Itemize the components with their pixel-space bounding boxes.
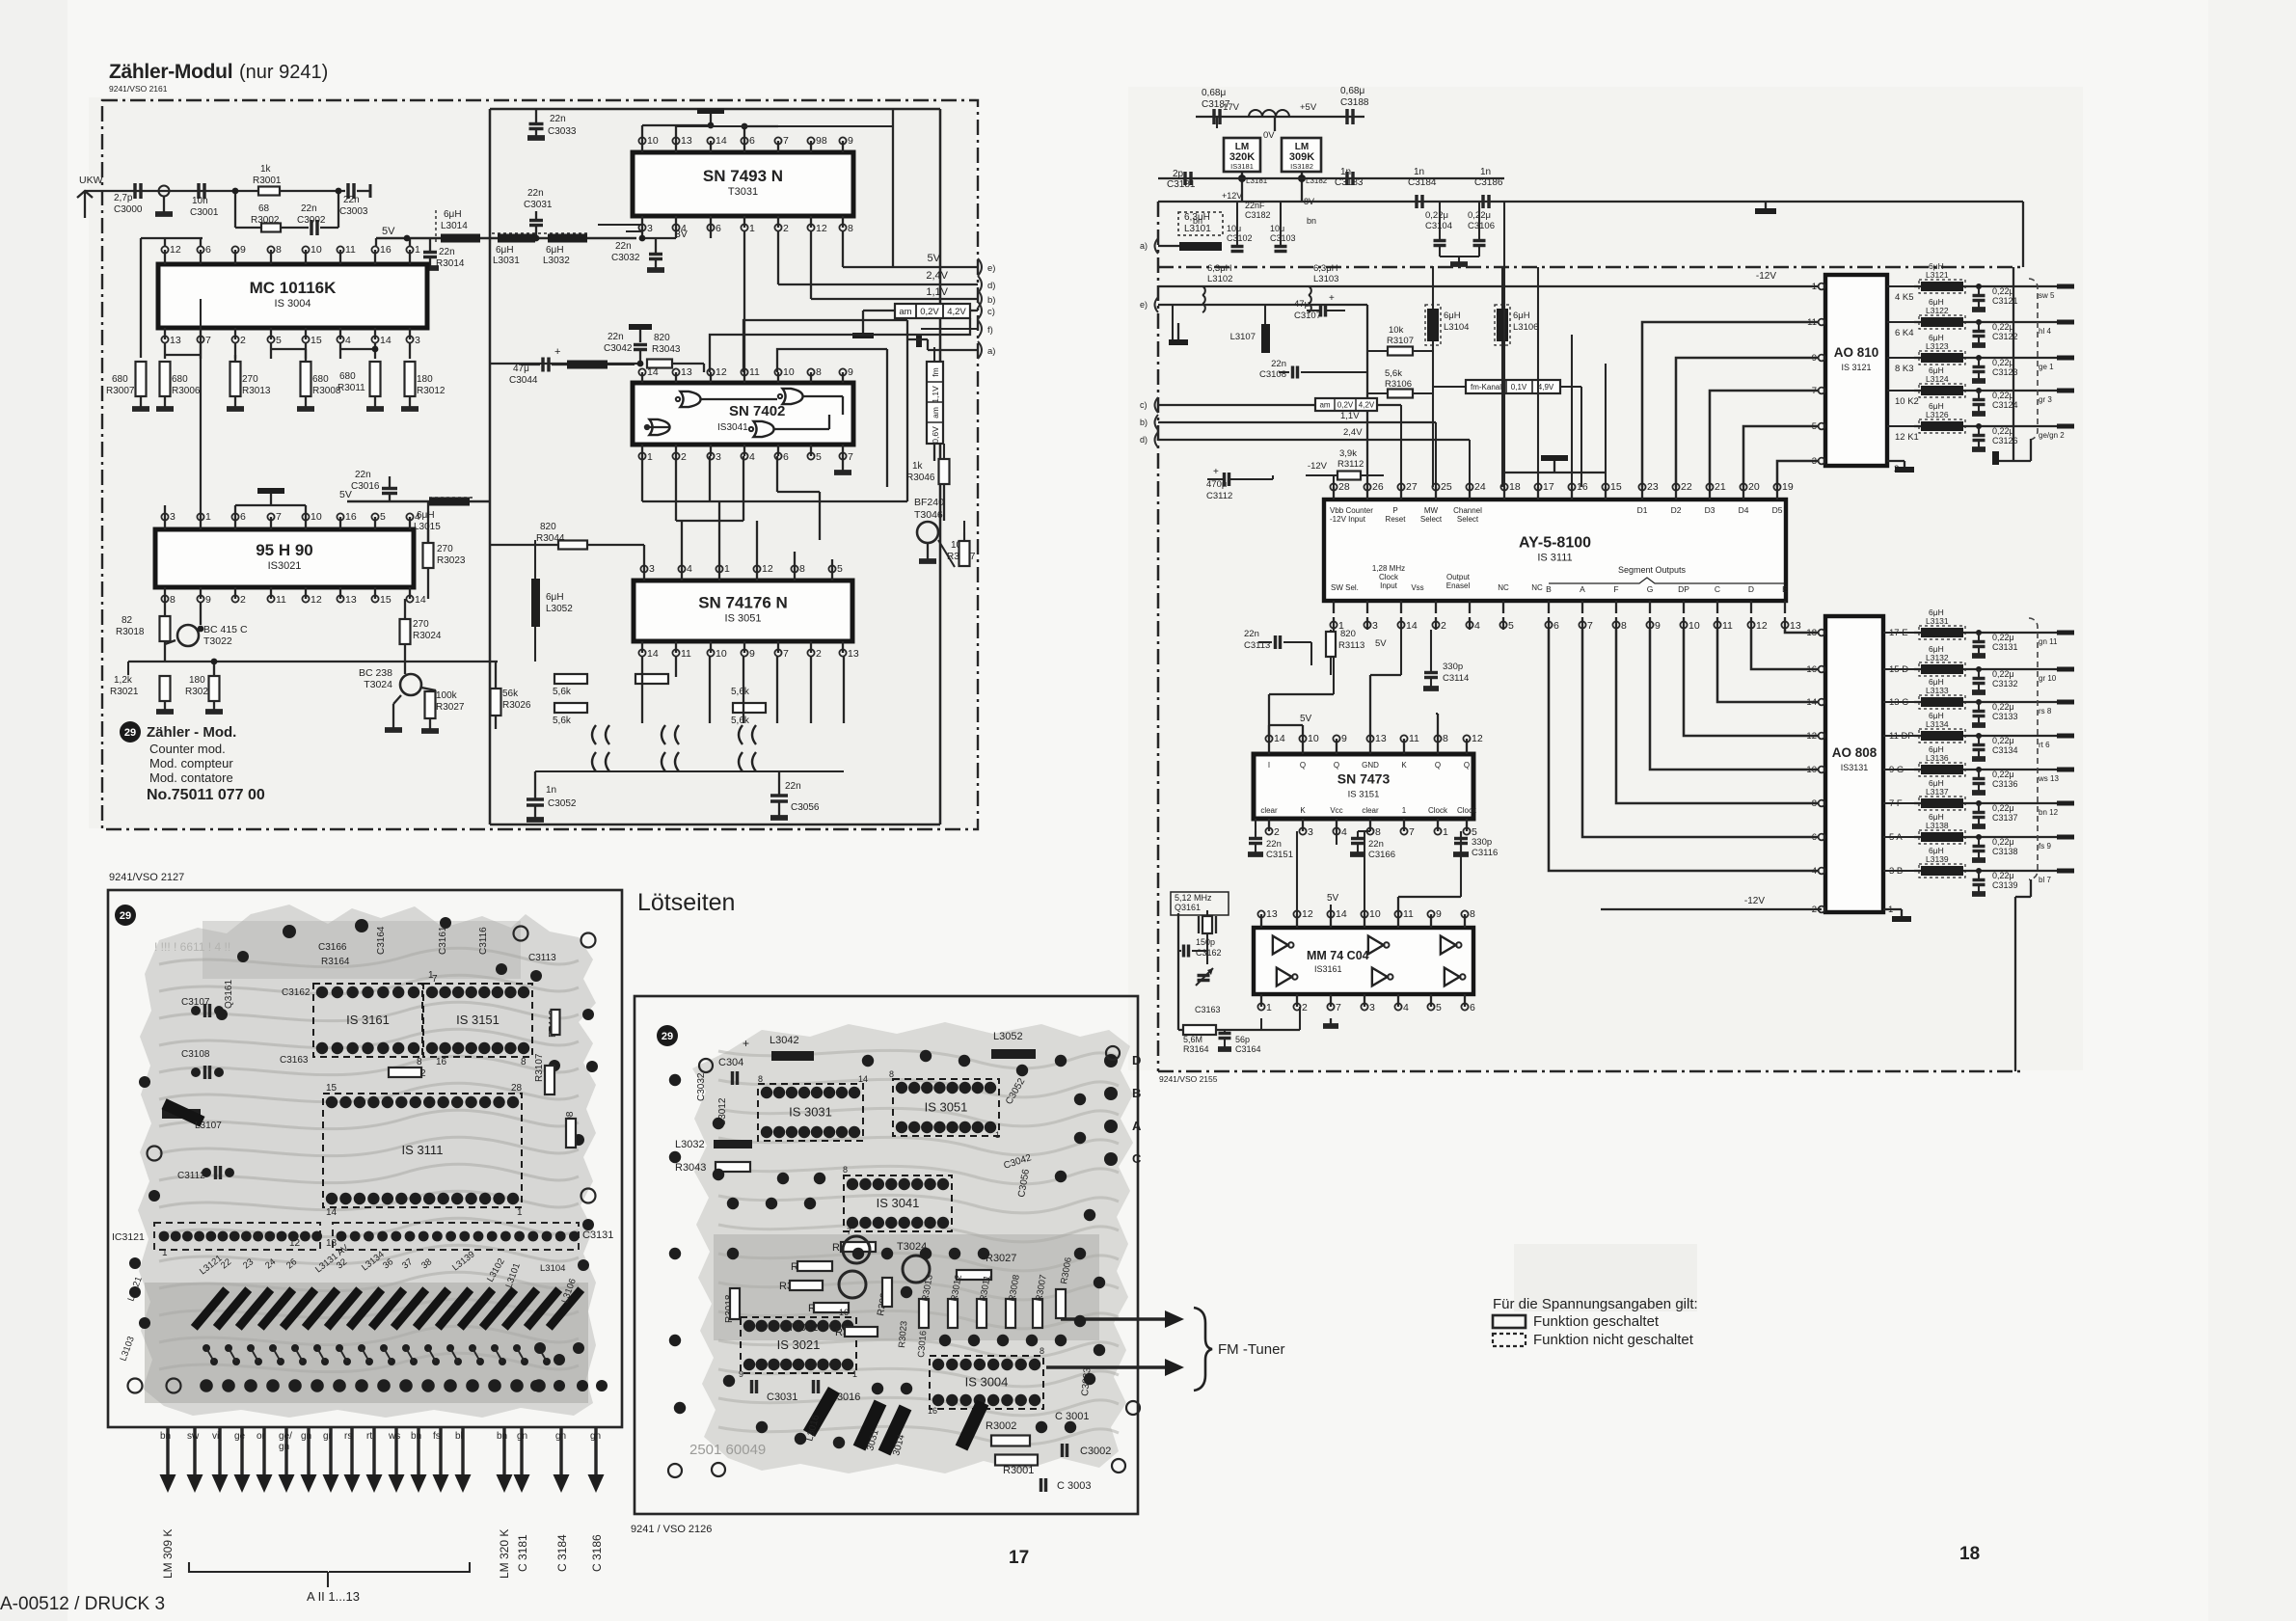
svg-text:Für die Spannungsangaben gilt:: Für die Spannungsangaben gilt: xyxy=(1493,1296,1698,1312)
svg-text:T3046: T3046 xyxy=(914,509,943,521)
svg-text:C3031: C3031 xyxy=(767,1391,797,1403)
svg-text:ws 13: ws 13 xyxy=(2038,774,2059,783)
svg-text:1: 1 xyxy=(1443,826,1448,838)
svg-text:NC: NC xyxy=(1498,583,1509,592)
svg-text:10: 10 xyxy=(311,511,322,523)
svg-text:0,1V: 0,1V xyxy=(1511,383,1527,392)
svg-text:C3113: C3113 xyxy=(528,953,556,963)
svg-text:L3102: L3102 xyxy=(1207,274,1232,284)
svg-text:Enasel: Enasel xyxy=(1446,581,1471,590)
svg-text:IS3182: IS3182 xyxy=(1290,162,1313,171)
svg-text:1: 1 xyxy=(415,244,420,256)
svg-text:C 3184: C 3184 xyxy=(555,1534,569,1572)
svg-text:9: 9 xyxy=(1655,620,1661,632)
svg-text:IS 3151: IS 3151 xyxy=(456,1013,500,1027)
svg-text:10: 10 xyxy=(1369,908,1381,920)
svg-text:LM 320 K: LM 320 K xyxy=(498,1529,511,1579)
svg-text:IS 3111: IS 3111 xyxy=(402,1143,444,1157)
svg-text:C3031: C3031 xyxy=(524,200,553,210)
svg-text:1,1V: 1,1V xyxy=(926,286,948,298)
svg-text:R3002: R3002 xyxy=(986,1420,1016,1432)
svg-text:AY-5-8100: AY-5-8100 xyxy=(1519,535,1591,552)
svg-text:6: 6 xyxy=(749,135,755,147)
svg-text:5,12 MHz: 5,12 MHz xyxy=(1175,893,1212,903)
svg-text:MW: MW xyxy=(1424,506,1439,515)
svg-text:C 3186: C 3186 xyxy=(590,1534,604,1572)
svg-text:L3139: L3139 xyxy=(1926,854,1949,864)
svg-text:180: 180 xyxy=(417,374,433,385)
svg-text:R3106: R3106 xyxy=(1385,379,1412,390)
svg-text:6μH: 6μH xyxy=(496,245,514,256)
svg-text:0,22μ: 0,22μ xyxy=(1992,837,2014,847)
svg-text:! !!! ! 6611 ! 4 !!: ! !!! ! 6611 ! 4 !! xyxy=(154,940,230,954)
svg-text:11: 11 xyxy=(345,244,356,256)
svg-text:C3114: C3114 xyxy=(1443,673,1469,684)
svg-text:22n: 22n xyxy=(1266,839,1282,850)
svg-text:6: 6 xyxy=(205,244,211,256)
svg-text:Segment Outputs: Segment Outputs xyxy=(1618,565,1687,575)
svg-text:R3006: R3006 xyxy=(172,386,201,396)
svg-text:gn: gn xyxy=(301,1431,311,1442)
svg-text:16: 16 xyxy=(928,1406,937,1416)
svg-text:P: P xyxy=(1392,506,1397,515)
svg-text:14: 14 xyxy=(415,594,426,606)
svg-text:6μH: 6μH xyxy=(1513,311,1530,321)
svg-text:7: 7 xyxy=(1409,826,1415,838)
svg-text:b): b) xyxy=(987,295,995,306)
svg-text:R3021: R3021 xyxy=(110,687,139,697)
svg-text:C: C xyxy=(1132,1151,1142,1166)
svg-text:0,6V: 0,6V xyxy=(931,426,940,444)
svg-text:680: 680 xyxy=(312,374,329,385)
svg-text:270: 270 xyxy=(242,374,258,385)
svg-text:LM 309 K: LM 309 K xyxy=(161,1529,175,1579)
svg-text:6: 6 xyxy=(716,223,721,234)
svg-text:9: 9 xyxy=(240,244,246,256)
svg-text:R3018: R3018 xyxy=(116,627,145,637)
svg-text:+: + xyxy=(554,346,560,358)
svg-text:10μ: 10μ xyxy=(1270,224,1284,233)
svg-text:13: 13 xyxy=(345,594,357,606)
svg-text:22n: 22n xyxy=(1244,629,1259,639)
svg-text:6μH: 6μH xyxy=(546,245,564,256)
svg-text:A: A xyxy=(1132,1119,1142,1133)
svg-text:1: 1 xyxy=(852,1369,857,1379)
svg-text:R3027: R3027 xyxy=(436,702,465,713)
svg-text:5: 5 xyxy=(380,511,386,523)
svg-text:10: 10 xyxy=(311,244,322,256)
svg-text:Vbb Counter: Vbb Counter xyxy=(1330,506,1373,515)
svg-text:L3014: L3014 xyxy=(441,221,468,231)
svg-text:22nF: 22nF xyxy=(1245,201,1265,210)
svg-text:6 K4: 6 K4 xyxy=(1895,328,1914,338)
svg-text:0,22μ: 0,22μ xyxy=(1992,770,2014,779)
svg-text:rs 8: rs 8 xyxy=(2039,707,2052,716)
svg-text:0,22μ: 0,22μ xyxy=(1992,702,2014,712)
svg-text:C3112: C3112 xyxy=(1206,491,1232,501)
svg-text:C3107: C3107 xyxy=(181,997,210,1008)
svg-text:bl 7: bl 7 xyxy=(2039,876,2051,884)
svg-text:IS 3021: IS 3021 xyxy=(777,1337,821,1352)
svg-text:5V: 5V xyxy=(928,253,941,264)
svg-text:12: 12 xyxy=(311,594,322,606)
svg-text:4: 4 xyxy=(1403,1002,1409,1013)
svg-text:5: 5 xyxy=(276,335,282,346)
svg-text:Q: Q xyxy=(1435,761,1441,770)
svg-text:f): f) xyxy=(987,325,993,336)
svg-text:IS 3004: IS 3004 xyxy=(965,1375,1009,1390)
svg-text:fs: fs xyxy=(433,1431,441,1442)
svg-text:6,3μH: 6,3μH xyxy=(1207,263,1232,274)
svg-text:fm: fm xyxy=(931,367,940,376)
svg-text:-12V: -12V xyxy=(1308,461,1328,472)
svg-text:C3042: C3042 xyxy=(604,343,633,354)
svg-text:C3183: C3183 xyxy=(1335,177,1364,188)
svg-text:IS3181: IS3181 xyxy=(1230,162,1254,171)
svg-text:0V: 0V xyxy=(1263,130,1275,141)
svg-text:(nur 9241): (nur 9241) xyxy=(239,62,328,83)
svg-text:8: 8 xyxy=(1621,620,1627,632)
svg-text:C3181: C3181 xyxy=(1167,179,1196,190)
svg-text:82: 82 xyxy=(122,615,133,626)
svg-text:FM -Tuner: FM -Tuner xyxy=(1218,1341,1284,1358)
svg-text:C3163: C3163 xyxy=(1195,1005,1221,1014)
svg-text:D2: D2 xyxy=(1671,505,1682,515)
svg-text:5: 5 xyxy=(1436,1002,1442,1013)
svg-text:12: 12 xyxy=(716,366,727,378)
svg-text:C3134: C3134 xyxy=(1992,745,2018,755)
svg-text:13: 13 xyxy=(848,648,859,660)
svg-text:L3106: L3106 xyxy=(1513,322,1538,333)
svg-text:E: E xyxy=(1782,584,1788,594)
svg-text:11: 11 xyxy=(1403,908,1414,920)
svg-text:100k: 100k xyxy=(436,690,458,701)
svg-text:14: 14 xyxy=(647,648,659,660)
svg-text:R3107: R3107 xyxy=(534,1053,545,1082)
svg-text:1,2k: 1,2k xyxy=(114,675,133,686)
svg-text:SN 7402: SN 7402 xyxy=(729,403,785,419)
svg-text:13: 13 xyxy=(1375,733,1387,744)
svg-text:22n: 22n xyxy=(550,114,566,124)
svg-text:0,22μ: 0,22μ xyxy=(1992,286,2014,296)
svg-text:1: 1 xyxy=(724,563,730,575)
svg-text:Funktion nicht geschaltet: Funktion nicht geschaltet xyxy=(1533,1332,1694,1348)
svg-text:R3113: R3113 xyxy=(1338,640,1364,651)
svg-text:0,68μ: 0,68μ xyxy=(1202,88,1226,98)
svg-text:2,7p: 2,7p xyxy=(114,193,133,203)
svg-text:L3107: L3107 xyxy=(195,1121,222,1131)
svg-text:Zähler-Modul: Zähler-Modul xyxy=(109,61,232,83)
svg-text:15: 15 xyxy=(380,594,392,606)
svg-text:C3164: C3164 xyxy=(376,926,387,955)
svg-text:680: 680 xyxy=(339,371,356,382)
svg-text:1k: 1k xyxy=(912,461,924,472)
svg-text:8: 8 xyxy=(843,1165,848,1175)
svg-text:10: 10 xyxy=(716,648,727,660)
svg-text:3: 3 xyxy=(170,511,176,523)
svg-text:C3161: C3161 xyxy=(438,926,448,955)
svg-text:C3162: C3162 xyxy=(1196,948,1222,958)
svg-text:8: 8 xyxy=(1443,733,1448,744)
svg-text:b): b) xyxy=(1140,418,1148,427)
svg-text:IC3121: IC3121 xyxy=(112,1231,145,1243)
svg-text:C3016: C3016 xyxy=(351,481,380,492)
svg-text:9: 9 xyxy=(848,135,853,147)
svg-text:I: I xyxy=(1268,761,1270,770)
svg-text:4: 4 xyxy=(1474,620,1480,632)
svg-text:11: 11 xyxy=(1722,620,1733,632)
svg-text:9: 9 xyxy=(1341,733,1347,744)
svg-text:0,22μ: 0,22μ xyxy=(1992,669,2014,679)
svg-text:L3052: L3052 xyxy=(546,604,573,614)
svg-text:16: 16 xyxy=(436,1057,447,1067)
svg-text:29: 29 xyxy=(124,727,136,739)
svg-text:8: 8 xyxy=(799,563,805,575)
svg-text:8: 8 xyxy=(816,366,822,378)
svg-text:Mod. contatore: Mod. contatore xyxy=(149,770,233,785)
svg-text:12: 12 xyxy=(1302,908,1313,920)
svg-text:2: 2 xyxy=(1812,905,1817,915)
svg-text:R3043: R3043 xyxy=(675,1162,706,1174)
svg-text:R3027: R3027 xyxy=(986,1253,1016,1264)
svg-text:+5V: +5V xyxy=(1300,102,1317,113)
svg-text:IS 3151: IS 3151 xyxy=(1348,790,1380,800)
svg-text:L3134: L3134 xyxy=(1926,719,1949,729)
svg-text:9241 / VSO 2126: 9241 / VSO 2126 xyxy=(631,1524,712,1535)
svg-text:GND: GND xyxy=(1362,761,1379,770)
svg-text:13: 13 xyxy=(1790,620,1801,632)
svg-text:L3104: L3104 xyxy=(1444,322,1469,333)
svg-text:Counter mod.: Counter mod. xyxy=(149,742,226,756)
svg-text:ge: ge xyxy=(234,1431,246,1442)
svg-text:8: 8 xyxy=(889,1069,894,1079)
svg-text:12: 12 xyxy=(289,1238,301,1249)
svg-text:bn: bn xyxy=(1307,216,1316,226)
svg-text:4: 4 xyxy=(345,335,351,346)
svg-text:L3104: L3104 xyxy=(540,1263,565,1274)
svg-text:C3106: C3106 xyxy=(1468,221,1495,231)
svg-text:R3043: R3043 xyxy=(652,344,681,355)
svg-text:10: 10 xyxy=(1308,733,1319,744)
svg-text:22n: 22n xyxy=(608,332,624,342)
svg-text:SW Sel.: SW Sel. xyxy=(1331,583,1359,592)
svg-text:5: 5 xyxy=(1508,620,1514,632)
svg-text:150p: 150p xyxy=(1196,937,1215,947)
svg-text:L3101: L3101 xyxy=(1184,224,1211,234)
svg-text:T3024: T3024 xyxy=(364,679,392,690)
svg-text:23: 23 xyxy=(1647,481,1659,493)
svg-text:C3102: C3102 xyxy=(1227,233,1253,243)
svg-text:C3032: C3032 xyxy=(696,1072,707,1101)
svg-text:B: B xyxy=(1132,1086,1141,1100)
svg-text:C3033: C3033 xyxy=(548,126,577,137)
svg-text:NC: NC xyxy=(1531,583,1543,592)
svg-text:8: 8 xyxy=(417,1057,422,1067)
svg-text:R3046: R3046 xyxy=(906,473,935,483)
svg-text:L3123: L3123 xyxy=(1926,341,1949,351)
svg-text:clear: clear xyxy=(1362,806,1379,815)
svg-text:15: 15 xyxy=(326,1083,338,1094)
svg-text:A-00512 / DRUCK 3: A-00512 / DRUCK 3 xyxy=(0,1594,165,1614)
svg-text:2p: 2p xyxy=(1173,169,1184,179)
svg-text:R3001: R3001 xyxy=(253,176,282,186)
svg-text:12: 12 xyxy=(1756,620,1768,632)
svg-text:15: 15 xyxy=(311,335,322,346)
svg-text:L3132: L3132 xyxy=(1926,653,1949,662)
svg-text:C3000: C3000 xyxy=(114,204,143,215)
svg-text:6: 6 xyxy=(783,451,789,463)
svg-text:R3011: R3011 xyxy=(338,383,365,393)
svg-text:Q3161: Q3161 xyxy=(224,980,234,1009)
svg-text:Q: Q xyxy=(1300,761,1306,770)
svg-text:0,22μ: 0,22μ xyxy=(1992,633,2014,642)
svg-text:14: 14 xyxy=(380,335,392,346)
svg-text:C3112: C3112 xyxy=(177,1171,205,1181)
svg-text:C3052: C3052 xyxy=(548,798,577,809)
svg-text:R3024: R3024 xyxy=(413,631,442,641)
svg-text:or: or xyxy=(257,1431,266,1442)
svg-text:11: 11 xyxy=(1409,733,1419,744)
svg-text:+: + xyxy=(1213,467,1219,477)
svg-text:3: 3 xyxy=(716,451,721,463)
svg-text:3: 3 xyxy=(415,335,420,346)
svg-text:-12V: -12V xyxy=(1744,896,1765,906)
svg-text:29: 29 xyxy=(120,910,131,922)
svg-text:L3136: L3136 xyxy=(1926,753,1949,763)
svg-text:5,6k: 5,6k xyxy=(553,687,572,697)
svg-text:c): c) xyxy=(987,307,995,317)
svg-text:d): d) xyxy=(987,281,995,291)
svg-text:820: 820 xyxy=(540,522,556,532)
svg-text:26: 26 xyxy=(1372,481,1384,493)
svg-text:7: 7 xyxy=(1587,620,1593,632)
svg-text:16: 16 xyxy=(345,511,357,523)
svg-text:95 H 90: 95 H 90 xyxy=(256,541,313,559)
svg-text:14: 14 xyxy=(326,1207,338,1218)
svg-text:14: 14 xyxy=(858,1074,868,1084)
svg-text:G: G xyxy=(1647,584,1654,594)
svg-text:6μH: 6μH xyxy=(1444,311,1461,321)
svg-text:680: 680 xyxy=(112,374,128,385)
svg-text:-12V Input: -12V Input xyxy=(1330,515,1366,524)
svg-text:C3138: C3138 xyxy=(1992,847,2018,856)
svg-text:L3133: L3133 xyxy=(1926,686,1949,695)
svg-text:rt: rt xyxy=(366,1431,372,1442)
svg-text:5,6k: 5,6k xyxy=(731,687,750,697)
svg-text:L3137: L3137 xyxy=(1926,787,1949,797)
svg-text:22n: 22n xyxy=(301,203,317,214)
svg-text:5V: 5V xyxy=(1375,638,1387,649)
svg-text:8: 8 xyxy=(1375,826,1381,838)
svg-text:IS 3051: IS 3051 xyxy=(725,613,762,625)
svg-text:L3122: L3122 xyxy=(1926,306,1949,315)
svg-text:gr 10: gr 10 xyxy=(2039,674,2057,683)
svg-text:5,6k: 5,6k xyxy=(1385,368,1402,379)
svg-text:IS3131: IS3131 xyxy=(1841,763,1869,772)
svg-text:MC 10116K: MC 10116K xyxy=(250,279,337,297)
svg-text:Q: Q xyxy=(1334,761,1339,770)
svg-text:19: 19 xyxy=(1782,481,1794,493)
svg-text:8: 8 xyxy=(758,1074,763,1084)
svg-text:4,2V: 4,2V xyxy=(1359,401,1375,410)
svg-text:+: + xyxy=(743,1037,749,1050)
svg-text:L3126: L3126 xyxy=(1926,410,1949,419)
svg-text:C3131: C3131 xyxy=(582,1229,613,1241)
svg-text:T3031: T3031 xyxy=(728,186,758,198)
svg-text:C3187: C3187 xyxy=(1202,99,1230,110)
svg-text:6: 6 xyxy=(240,511,246,523)
svg-text:C3188: C3188 xyxy=(1340,97,1369,108)
svg-text:820: 820 xyxy=(654,333,670,343)
svg-text:11: 11 xyxy=(276,594,286,606)
svg-text:9: 9 xyxy=(1436,908,1442,920)
svg-text:IS 3041: IS 3041 xyxy=(877,1196,920,1210)
svg-text:68: 68 xyxy=(258,203,270,214)
svg-text:e): e) xyxy=(1140,300,1148,310)
svg-text:0,22μ: 0,22μ xyxy=(1992,322,2014,332)
svg-text:22n: 22n xyxy=(615,241,632,252)
svg-text:0,22μ: 0,22μ xyxy=(1992,871,2014,880)
svg-text:C3137: C3137 xyxy=(1992,813,2018,823)
svg-text:gn: gn xyxy=(590,1431,601,1442)
svg-text:K: K xyxy=(1300,806,1306,815)
svg-text:Vcc: Vcc xyxy=(1330,806,1342,815)
svg-text:IS 3031: IS 3031 xyxy=(789,1105,832,1120)
svg-text:L3121: L3121 xyxy=(1926,270,1949,280)
svg-text:Zähler - Mod.: Zähler - Mod. xyxy=(147,724,236,741)
svg-text:D3: D3 xyxy=(1705,505,1715,515)
svg-text:UKW: UKW xyxy=(79,175,103,186)
svg-text:C3116: C3116 xyxy=(1472,848,1498,858)
svg-text:C3056: C3056 xyxy=(791,802,820,813)
svg-text:22n: 22n xyxy=(1271,359,1286,369)
svg-text:180: 180 xyxy=(189,675,205,686)
svg-text:8: 8 xyxy=(1470,908,1475,920)
svg-text:10: 10 xyxy=(783,366,795,378)
svg-text:4: 4 xyxy=(749,451,755,463)
svg-text:IS 3121: IS 3121 xyxy=(1841,363,1871,372)
svg-text:7: 7 xyxy=(1336,1002,1341,1013)
svg-text:C3139: C3139 xyxy=(1992,880,2018,890)
svg-text:R3164: R3164 xyxy=(1183,1044,1209,1054)
svg-text:7: 7 xyxy=(205,335,211,346)
svg-text:17: 17 xyxy=(1009,1548,1029,1568)
svg-text:10: 10 xyxy=(1688,620,1700,632)
svg-text:10n: 10n xyxy=(192,196,208,206)
svg-text:2: 2 xyxy=(1302,1002,1308,1013)
svg-text:C3108: C3108 xyxy=(1259,369,1286,380)
svg-text:10μ: 10μ xyxy=(1227,224,1241,233)
svg-text:e): e) xyxy=(987,263,995,274)
svg-text:4: 4 xyxy=(1341,826,1347,838)
svg-text:47μ: 47μ xyxy=(1294,299,1310,310)
svg-text:D: D xyxy=(1132,1053,1141,1067)
svg-text:9: 9 xyxy=(205,594,211,606)
svg-text:5,6M: 5,6M xyxy=(1183,1035,1202,1044)
svg-text:L3031: L3031 xyxy=(493,256,520,266)
svg-text:R3107: R3107 xyxy=(1387,336,1414,346)
svg-text:clear: clear xyxy=(1260,806,1278,815)
svg-text:D4: D4 xyxy=(1739,505,1749,515)
svg-text:1: 1 xyxy=(1402,806,1407,815)
svg-text:10: 10 xyxy=(647,135,659,147)
svg-text:12: 12 xyxy=(762,563,773,575)
svg-text:18: 18 xyxy=(1959,1544,1980,1564)
svg-text:Select: Select xyxy=(1457,515,1479,524)
svg-text:IS 3161: IS 3161 xyxy=(346,1013,390,1027)
svg-text:9241/VSO 2161: 9241/VSO 2161 xyxy=(109,84,168,94)
svg-text:5,6k: 5,6k xyxy=(553,716,572,726)
